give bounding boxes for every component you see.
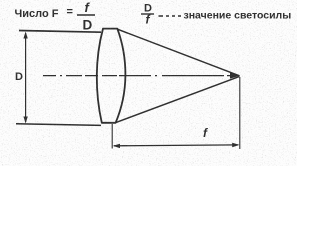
arrowhead up — [23, 32, 27, 39]
scan grain overlay — [0, 0, 297, 166]
lens — [97, 29, 126, 123]
arrowhead down — [23, 117, 27, 124]
fraction f/D bar — [77, 14, 95, 16]
focal point — [230, 73, 240, 79]
dimension line f — [114, 144, 238, 147]
leader dashes — [159, 15, 182, 17]
optical axis — [43, 75, 237, 77]
lens extension line — [111, 124, 113, 149]
top extension line — [19, 31, 101, 33]
upper ray — [118, 29, 240, 76]
bottom extension line — [16, 124, 101, 126]
focal extension line — [239, 77, 241, 149]
lower ray — [116, 76, 240, 122]
arrowhead right — [232, 143, 239, 147]
arrowhead left — [113, 144, 120, 148]
fraction D/f bar — [141, 13, 154, 15]
dimension line D — [25, 33, 27, 122]
